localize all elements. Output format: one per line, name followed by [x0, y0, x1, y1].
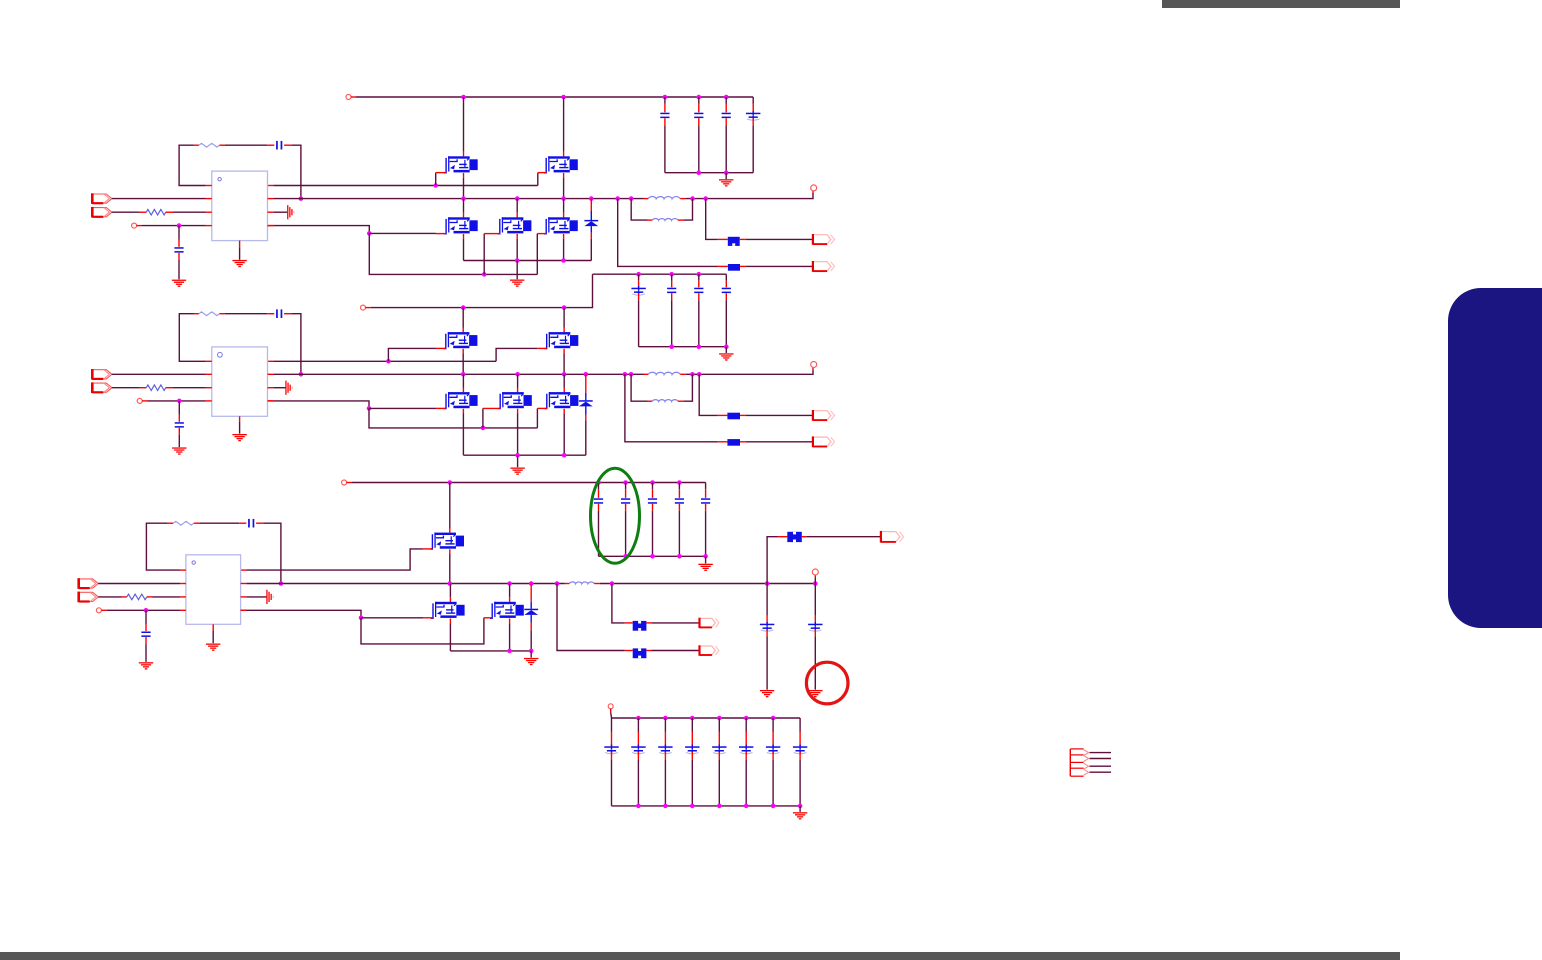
junction rail3/C16 — [677, 480, 682, 485]
junction UG2/Q6 gate — [386, 359, 391, 364]
fuse F4 — [727, 439, 740, 446]
transistor Q5 — [544, 217, 578, 234]
pin C1 top — [664, 104, 666, 113]
junction SW2/Q9 — [515, 372, 520, 377]
wire U1 ref gnd — [273, 211, 287, 213]
wire C14 to gnd bus — [625, 511, 627, 557]
wire Q4 gate riser — [483, 234, 485, 275]
navy side tab — [1448, 288, 1542, 628]
wire C2 to gnd bus — [698, 125, 700, 172]
pin D3 cathode — [530, 584, 532, 602]
ground bank3 — [698, 564, 712, 571]
wire Q2 gate riser — [537, 173, 539, 186]
wire Q10 source — [563, 414, 565, 456]
wire Q10 gate riser — [536, 408, 538, 428]
wire C22 top lead — [611, 718, 613, 732]
pin D2 cathode — [585, 374, 587, 393]
green ellipse annotation — [591, 468, 640, 563]
wire bank2 gnd bus — [639, 346, 727, 348]
pin C12 bottom — [178, 428, 180, 435]
diode D2 lead — [585, 393, 587, 400]
wire U2 ref gnd — [273, 387, 285, 389]
wire EN3 to U3 — [98, 583, 180, 585]
wire F2 to port — [746, 265, 813, 267]
capacitor C29 (polarized) — [793, 746, 807, 748]
wire C13 top lead — [598, 483, 600, 490]
resistor R1 — [199, 143, 220, 147]
pin C1 bottom — [664, 118, 666, 125]
junction LG2 node — [367, 406, 372, 411]
pin L4 left — [648, 400, 652, 402]
pin C23 bottom — [637, 752, 639, 760]
diode D1 lead — [590, 211, 592, 220]
port VCC1 — [132, 223, 137, 228]
pin Q10 drain — [563, 388, 565, 393]
pin Q11 drain — [449, 528, 451, 533]
junction bulk bus/C27 — [744, 716, 749, 721]
pin stub P4 — [610, 709, 612, 713]
pin VOUT1 — [812, 191, 814, 193]
junction bank2 bus/gnd — [724, 344, 729, 349]
wire Q13 source — [509, 623, 511, 651]
wire UG line — [273, 185, 538, 187]
wire J1 pin 1 — [1090, 752, 1112, 754]
wire UG2 line — [273, 360, 496, 362]
wire C26 to gnd bus — [718, 760, 720, 806]
junction LG node — [367, 231, 372, 236]
junction rail3/Q11 drain — [448, 480, 453, 485]
wire F3 to port — [746, 414, 813, 416]
wire +V rail 2 — [371, 274, 593, 307]
pin Q7 drain — [563, 328, 565, 333]
capacitor C10 — [722, 288, 731, 290]
capacitor C18 (feedback) — [248, 519, 250, 528]
wire Q1 drain — [463, 97, 465, 152]
pin C25 top — [691, 732, 693, 746]
port VOUT2 sense — [811, 362, 817, 368]
wire out3 tap F7 — [557, 584, 625, 651]
wire R3-C11 — [225, 313, 267, 315]
pin C10 top — [725, 281, 727, 288]
junction SW1/L2 tap — [629, 196, 634, 201]
pin C14 bottom — [625, 504, 627, 511]
wire C10 top lead — [725, 274, 727, 280]
junction bank2 bus/C9 — [697, 344, 702, 349]
junction bank3 bus/C16 — [677, 554, 682, 559]
wire L2 branch up — [683, 199, 692, 221]
junction bulk gnd bus/C25 — [690, 804, 695, 809]
port VOUT3B — [700, 618, 716, 627]
pin L5 right — [594, 583, 600, 585]
junction bulk gnd bus/C26 — [717, 804, 722, 809]
wire out2 tap A — [699, 374, 717, 415]
ground C20 — [760, 690, 774, 697]
junction SW2/L4 tap — [629, 372, 634, 377]
junction UG/Q1 gate — [433, 183, 438, 188]
wire C20 top lead — [766, 584, 768, 616]
capacitor C5 (feedback) — [276, 141, 278, 150]
signal ground U2 — [285, 381, 293, 395]
junction SW1/out tap A — [615, 196, 620, 201]
wire VID3 — [98, 596, 121, 598]
junction bulk bus/C24 — [663, 716, 668, 721]
capacitor C26 (polarized) — [712, 746, 726, 748]
junction bulk gnd bus/C23 — [636, 804, 641, 809]
pin C27 bottom — [745, 752, 747, 760]
wire C29 top lead — [799, 718, 801, 732]
pin F6 right — [646, 622, 651, 624]
inductor L4 — [652, 400, 678, 402]
wire VID2 — [112, 387, 139, 389]
capacitor C1 — [660, 113, 669, 115]
pin C18 right — [256, 522, 263, 524]
transistor Q7 — [545, 332, 579, 349]
pin C6 bottom — [178, 253, 180, 260]
wire out tap B — [706, 199, 718, 240]
wire bank1 gnd stem — [725, 173, 727, 180]
pin F4 right — [740, 441, 746, 443]
diode D3 anode lead — [530, 615, 532, 623]
pin F3 right — [740, 414, 746, 416]
wire Q5 source — [563, 239, 565, 261]
junction rail1/C3 — [724, 95, 729, 100]
wire C8 top lead — [671, 274, 673, 280]
pin C15 top — [652, 489, 654, 498]
wire LG3 line — [246, 610, 361, 618]
wire LG line — [273, 226, 369, 234]
wire C4 to gnd bus — [752, 125, 754, 172]
wire C13 to gnd bus — [598, 511, 600, 557]
junction LG bottom/Q4 — [482, 272, 487, 277]
wire bank2 gnd stem — [725, 347, 727, 353]
wire U3 ref gnd — [246, 596, 266, 598]
junction bulk bus/C28 — [771, 716, 776, 721]
pin F4 left — [718, 441, 728, 443]
inductor L5 — [569, 582, 594, 584]
wire C7 top lead — [638, 274, 640, 280]
pin L2 left — [648, 219, 652, 221]
ground U1 — [232, 260, 246, 267]
pin Q5 drain — [563, 213, 565, 218]
wire L4 branch up — [683, 374, 692, 401]
wire bank2 top bus — [593, 273, 727, 275]
pin Q2 drain — [563, 152, 565, 157]
pin Q2 source — [563, 173, 565, 178]
pin stub P2 — [365, 307, 370, 309]
pin C27 top — [745, 732, 747, 746]
pin Q4 gate — [484, 233, 500, 235]
pin F7 right — [646, 650, 651, 652]
wire C22 to gnd bus — [611, 760, 613, 806]
capacitor C17 — [701, 498, 710, 500]
pin VCC2 — [142, 400, 147, 402]
wire C17 top lead — [705, 483, 707, 490]
wire Q3 source — [463, 239, 465, 261]
wire C23 top lead — [637, 718, 639, 732]
junction bank3 bus/C15 — [650, 554, 655, 559]
junction SW3/out tap B — [555, 581, 560, 586]
transistor Q10 — [545, 392, 579, 409]
pin F5 right — [802, 536, 807, 538]
pin Q1 gate — [436, 172, 446, 174]
wire J1 pin 3 — [1090, 765, 1112, 767]
pin C19 bottom — [145, 637, 147, 644]
pin L3 left — [644, 373, 648, 375]
pin L1 right — [680, 198, 686, 200]
wire C1 to gnd bus — [664, 125, 666, 172]
capacitor C13 — [594, 498, 603, 500]
wire pgnd1 stem — [516, 261, 518, 280]
port group J1 — [1070, 749, 1088, 776]
pin Q6 source — [462, 349, 464, 354]
wire C28 to gnd bus — [772, 760, 774, 806]
junction bulk gnd bus/C28 — [771, 804, 776, 809]
pin D2 anode — [585, 415, 587, 421]
wire C6 to gnd — [178, 260, 180, 279]
resistor R6 — [127, 594, 147, 600]
pin Q11 gate — [423, 548, 433, 550]
ground C12 — [172, 447, 186, 454]
wire C2 top lead — [698, 97, 700, 104]
ground block1 power — [510, 280, 524, 287]
pin F1 right — [740, 238, 746, 240]
pin C23 top — [637, 732, 639, 746]
wire R5-C18 — [199, 522, 239, 524]
capacitor C6 — [174, 247, 183, 249]
pin C8 bottom — [671, 293, 673, 300]
junction SW1/Q2 — [561, 196, 566, 201]
capacitor C21 (polarized) — [808, 624, 822, 626]
pin C8 top — [671, 281, 673, 288]
wire +V rail 3 — [352, 482, 706, 484]
pin C24 top — [664, 732, 666, 746]
wire F5 to port — [806, 536, 881, 538]
wire FB3 left — [146, 523, 180, 570]
capacitor C27 (polarized) — [739, 746, 753, 748]
wire D2 to pgnd bus — [585, 420, 587, 455]
wire SW2 rail right — [686, 370, 813, 375]
U2 left pin stubs — [206, 361, 212, 401]
wire out3 tap F5 — [767, 537, 777, 584]
pin Q3 drain — [463, 213, 465, 218]
wire Q1 source to SW1 — [463, 178, 465, 199]
wire SW2 rail left — [273, 373, 644, 375]
pin C13 top — [598, 489, 600, 498]
wire Q7 source to SW2 — [563, 354, 565, 375]
wire +V rail 1 — [356, 96, 753, 98]
port VOUT3C — [700, 646, 716, 655]
junction SW3/D3 — [529, 581, 534, 586]
pin C2 bottom — [698, 118, 700, 125]
port EN2 — [92, 370, 112, 379]
pin C3 bottom — [725, 118, 727, 125]
wire pgnd2 stem — [517, 455, 519, 467]
signal ground U1 — [287, 205, 295, 219]
pin C5 right — [284, 144, 291, 146]
junction SW2/out tap A — [697, 372, 702, 377]
pin C13 bottom — [598, 504, 600, 511]
pin VOUT2 — [812, 367, 814, 369]
ground C6 — [172, 280, 186, 287]
junction bank2 bus/C9 — [697, 272, 702, 277]
pin C15 bottom — [652, 504, 654, 511]
wire FB3 right — [263, 523, 281, 583]
transistor Q8 — [444, 392, 478, 409]
wire C7 to gnd bus — [638, 300, 640, 347]
wire C23 to gnd bus — [637, 760, 639, 806]
pin VCC3 — [101, 609, 106, 611]
ground bank1 — [719, 179, 733, 186]
pin Q4 source — [516, 234, 518, 239]
pin F5 left — [778, 536, 788, 538]
wire C26 top lead — [718, 718, 720, 732]
junction rail3/C13 — [596, 480, 601, 485]
capacitor C16 — [675, 498, 684, 500]
capacitor C14 — [621, 498, 630, 500]
wire out tap A — [618, 199, 718, 267]
wire Q7 gate riser — [496, 348, 537, 361]
capacitor C3 — [722, 113, 731, 115]
fuse F2 — [728, 264, 740, 271]
ground C21 — [808, 690, 822, 697]
wire SW3 rail left — [246, 583, 565, 585]
junction rail3/C15 — [650, 480, 655, 485]
wire R1-C5 — [225, 144, 267, 146]
capacitor C19 — [141, 632, 150, 634]
pin C5 left — [267, 144, 274, 146]
wire EN1 to U1 — [112, 198, 206, 200]
pin C3 top — [725, 104, 727, 113]
wire C24 top lead — [664, 718, 666, 732]
pin C20 bottom — [766, 629, 768, 636]
ground C19 — [139, 662, 153, 669]
wire bank3 gnd stem — [705, 556, 707, 563]
diode D2 — [579, 400, 593, 402]
pin C12 top — [178, 415, 180, 422]
pin F1 left — [718, 238, 728, 240]
wire C16 to gnd bus — [678, 511, 680, 557]
pin Q12 source — [449, 619, 451, 624]
wire VCC2 to U2 — [148, 400, 206, 402]
pin R6 left — [122, 596, 127, 598]
junction SW1/out tap B — [703, 196, 708, 201]
diode D3 lead — [530, 602, 532, 609]
wire Q6 source to SW2 — [462, 354, 464, 375]
wire FB2 right — [291, 314, 301, 375]
diode D2 anode lead — [585, 406, 587, 414]
resistor R4 — [146, 385, 165, 391]
inductor L1 — [648, 197, 680, 199]
pin C11 left — [267, 313, 274, 315]
pin Q8 source — [462, 409, 464, 414]
junction pgnd1/Q4 — [515, 258, 520, 263]
pin VOUT3 — [814, 575, 816, 577]
bottom gray footer bar — [0, 952, 1400, 960]
wire VID1 — [112, 211, 139, 213]
transistor Q9 — [498, 392, 532, 409]
junction rail1/C2 — [697, 95, 702, 100]
wire Q1 gate riser — [435, 173, 437, 186]
pin C16 bottom — [678, 504, 680, 511]
wire C14 top lead — [625, 483, 627, 490]
wire Q3 gate line — [369, 232, 436, 234]
wire Q5 gate riser — [536, 234, 538, 275]
pin Q9 drain — [517, 388, 519, 393]
transistor Q3 — [444, 217, 478, 234]
pin U1 LG — [268, 225, 274, 227]
resistor R5 — [173, 521, 194, 525]
pin R3 right — [220, 313, 225, 315]
wire R6 to U3 — [152, 596, 180, 598]
pin Q6 drain — [462, 328, 464, 333]
pin D3 anode — [530, 623, 532, 631]
junction rail2/Q7 drain — [562, 305, 567, 310]
transistor Q11 — [430, 533, 464, 550]
U1 right pin stubs — [268, 199, 274, 226]
pin C10 bottom — [725, 293, 727, 300]
junction bulk gnd bus/C27 — [744, 804, 749, 809]
wire Q13 drain — [509, 584, 511, 598]
wire UG3 line — [246, 549, 422, 570]
wire bulk gnd bus — [612, 805, 801, 807]
capacitor C15 — [648, 498, 657, 500]
wire pgnd bus 2 — [463, 454, 585, 456]
wire R4 to U2 — [173, 387, 206, 389]
junction bank3 bus/gnd — [703, 554, 708, 559]
pin F2 right — [740, 265, 746, 267]
wire Q9 gate riser — [482, 408, 484, 428]
wire LG2 drop — [369, 408, 537, 428]
wire C28 top lead — [772, 718, 774, 732]
wire pgnd bus 1 — [464, 260, 592, 262]
wire J1 pin 4 — [1090, 771, 1112, 773]
junction SW3/out tap A — [610, 581, 615, 586]
U3 right pin stubs — [241, 584, 247, 611]
pin Q11 source — [449, 549, 451, 554]
wire C12 to gnd — [178, 435, 180, 447]
port VOUT1A — [813, 235, 831, 244]
pin R5 right — [194, 522, 199, 524]
pin Q8 gate — [436, 407, 446, 409]
port P4 bulk rail — [608, 704, 613, 709]
port EN1 — [92, 194, 112, 203]
U3 left pin stubs — [180, 570, 186, 610]
capacitor C20 (polarized) — [760, 624, 774, 626]
pin C7 top — [638, 281, 640, 288]
pin Q12 drain — [449, 597, 451, 602]
junction bank2 bus/C8 — [669, 344, 674, 349]
pin C4 top — [752, 104, 754, 113]
junction LG3 node — [359, 616, 364, 621]
pin L3 right — [680, 373, 686, 375]
pin C19 top — [145, 624, 147, 631]
wire Q2 source to SW1 — [563, 178, 565, 199]
pin R1 left — [194, 144, 199, 146]
wire Q9 source — [517, 414, 519, 456]
ground bank2 — [719, 353, 733, 360]
wire cap bank1 ground bus — [665, 172, 753, 174]
pin C17 top — [705, 489, 707, 498]
junction pgnd3/gnd — [529, 649, 534, 654]
capacitor C25 (polarized) — [685, 746, 699, 748]
diode D3 — [524, 609, 538, 611]
wire EN2 to U2 — [112, 373, 206, 375]
ground block3 power — [524, 658, 538, 665]
pin C20 top — [766, 616, 768, 624]
top gray header bar — [1162, 0, 1400, 8]
junction SW2/D2 — [584, 372, 589, 377]
pin C18 left — [239, 522, 246, 524]
